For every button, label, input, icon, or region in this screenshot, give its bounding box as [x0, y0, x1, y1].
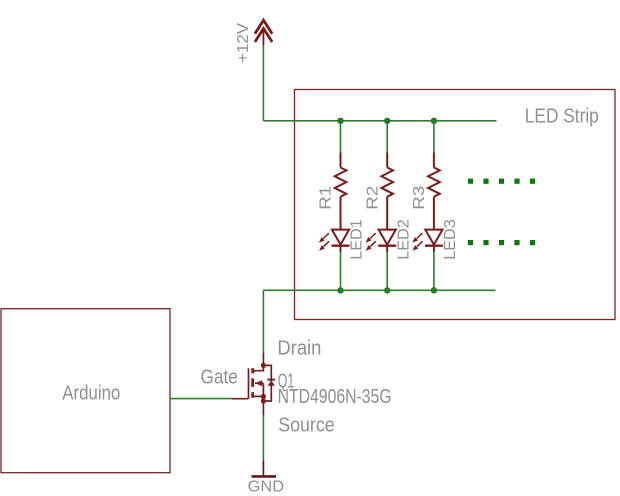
LED Strip box: [295, 90, 616, 320]
ground: [252, 461, 277, 476]
wire Arduino to gate: [170, 398, 232, 400]
node junction bottom LED1: [337, 287, 343, 293]
supply +12V symbol: [255, 20, 272, 45]
resistor R2: [381, 152, 393, 229]
wire top rail to R1: [340, 121, 342, 153]
wire top rail: [263, 120, 496, 122]
svg-text:R1: R1: [318, 186, 335, 210]
LED LED3: [412, 230, 443, 252]
svg-text:+12V: +12V: [235, 23, 252, 63]
node junction bottom LED2: [384, 287, 390, 293]
node junction top R2: [384, 118, 390, 124]
wire bottom rail: [263, 289, 495, 291]
svg-text:R2: R2: [364, 186, 381, 210]
svg-text:Arduino: Arduino: [62, 382, 120, 404]
svg-text:Drain: Drain: [277, 337, 321, 359]
wire top rail to R2: [386, 121, 388, 153]
wire bottom rail down to drain: [262, 290, 264, 353]
svg-text:LED3: LED3: [442, 219, 459, 260]
svg-text:LED Strip: LED Strip: [525, 106, 599, 128]
node junction top R3: [431, 118, 437, 124]
resistor R1: [335, 152, 347, 229]
continuation dots row bottom: [468, 240, 535, 245]
continuation dots row top: [468, 179, 535, 184]
svg-text:Gate: Gate: [200, 366, 238, 388]
svg-text:R3: R3: [411, 186, 428, 210]
svg-text:GND: GND: [248, 478, 285, 495]
resistor R3: [428, 152, 440, 229]
wire LED3 to bottom rail: [433, 252, 435, 290]
wire source to ground: [262, 415, 264, 461]
svg-text:LED2: LED2: [395, 219, 412, 260]
svg-text:LED1: LED1: [349, 219, 366, 260]
LED LED2: [366, 230, 397, 252]
wire top rail to R3: [433, 121, 435, 153]
Arduino box: [1, 309, 170, 473]
node junction bottom LED3: [431, 287, 437, 293]
LED LED1: [319, 230, 350, 252]
svg-text:Source: Source: [278, 415, 335, 437]
node junction top R1: [337, 118, 343, 124]
svg-text:NTD4906N-35G: NTD4906N-35G: [278, 386, 392, 408]
wire +12V down to top rail: [262, 45, 264, 121]
wire LED1 to bottom rail: [340, 252, 342, 290]
transistor Q1 NTD4906N-35G: [232, 353, 275, 415]
wire LED2 to bottom rail: [386, 252, 388, 290]
